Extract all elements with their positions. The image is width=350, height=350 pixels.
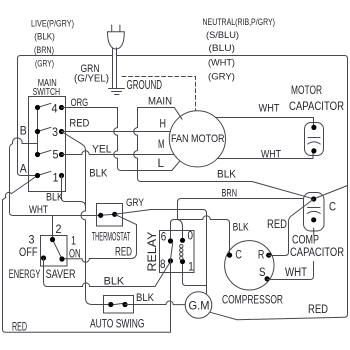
svg-text:B: B bbox=[20, 124, 27, 138]
svg-text:BLK: BLK bbox=[89, 168, 108, 180]
svg-text:3: 3 bbox=[29, 233, 35, 247]
svg-text:BLK: BLK bbox=[46, 192, 64, 204]
wire GRY from thermostat to G.M motor (drop at x206.5) bbox=[115, 210, 207, 294]
svg-text:S: S bbox=[259, 265, 266, 279]
wire ORG from switch 4 down to fan L (hops RED,YEL) bbox=[62, 108, 172, 171]
svg-text:G.M: G.M bbox=[189, 298, 210, 312]
svg-text:WHT: WHT bbox=[261, 149, 281, 161]
wire WHT fan to motor capacitor top bbox=[216, 118, 314, 126]
svg-text:RELAY: RELAY bbox=[145, 232, 159, 272]
svg-text:1: 1 bbox=[71, 234, 76, 248]
ground symbol bbox=[109, 89, 125, 95]
wire RED from switch 3 to fan H bbox=[62, 131, 171, 133]
plug cord double line to ground bbox=[113, 48, 117, 89]
svg-text:1: 1 bbox=[188, 260, 194, 274]
svg-text:RED: RED bbox=[69, 118, 89, 130]
wire from switch 3 diagonal down + drop to auto swing (hop bulge at thermostat wire) bbox=[62, 132, 109, 305]
svg-text:4: 4 bbox=[52, 102, 58, 116]
relay contact dots bbox=[168, 238, 173, 243]
svg-text:RED: RED bbox=[12, 322, 27, 334]
comp capacitor body bbox=[304, 193, 325, 232]
relay coil bbox=[180, 245, 183, 248]
motor capacitor terminal dots bbox=[311, 125, 316, 130]
main connector pentagon bottom diagonal stub bbox=[172, 161, 180, 170]
svg-text:H: H bbox=[160, 119, 167, 131]
fan motor circle bbox=[169, 111, 225, 167]
feed arc from thermostat wire to switch bus (hop over live wire) bbox=[10, 138, 99, 216]
svg-text:(WHT): (WHT) bbox=[208, 57, 235, 67]
thermostat contact dots bbox=[98, 213, 103, 218]
svg-text:3: 3 bbox=[52, 125, 58, 139]
comp capacitor terminal dots bbox=[311, 196, 316, 201]
svg-text:(BRN): (BRN) bbox=[34, 45, 54, 55]
switch blade 3 bbox=[38, 127, 52, 131]
svg-text:OFF: OFF bbox=[19, 247, 38, 259]
wire BLK junction to relay 6 bbox=[171, 220, 178, 239]
svg-text:(BLU): (BLU) bbox=[209, 43, 236, 53]
svg-text:AUTO SWING: AUTO SWING bbox=[90, 317, 145, 331]
auto swing box bbox=[104, 296, 134, 314]
svg-text:MAIN: MAIN bbox=[148, 96, 172, 108]
svg-text:GRY: GRY bbox=[126, 197, 145, 209]
auto swing contact dots bbox=[108, 302, 113, 307]
switch blade 1 bbox=[38, 171, 52, 175]
plug prongs bbox=[112, 25, 120, 32]
svg-text:GROUND: GROUND bbox=[127, 78, 163, 92]
svg-text:C: C bbox=[329, 200, 336, 214]
svg-text:(G/YEL): (G/YEL) bbox=[74, 73, 109, 84]
svg-text:ORG: ORG bbox=[71, 97, 89, 109]
switch blade 4 bbox=[38, 103, 52, 107]
wire neutral bus diagonal into comp capacitor C bbox=[315, 186, 348, 199]
wire live bus from plug to main switch row1 bbox=[18, 56, 112, 176]
svg-text:A: A bbox=[20, 162, 27, 176]
svg-text:M: M bbox=[158, 139, 165, 151]
svg-text:WHT: WHT bbox=[29, 204, 48, 216]
svg-text:(S/BLU): (S/BLU) bbox=[206, 30, 239, 40]
svg-text:(GRY): (GRY) bbox=[35, 59, 54, 69]
svg-text:NEUTRAL(RIB,P/GRY): NEUTRAL(RIB,P/GRY) bbox=[203, 17, 276, 28]
svg-text:RED: RED bbox=[308, 302, 328, 316]
svg-text:R: R bbox=[258, 247, 265, 261]
svg-text:SWITCH: SWITCH bbox=[33, 87, 61, 98]
wire energy saver 2 up to thermostat feed bbox=[52, 216, 54, 238]
main connector pentagon left edge (hops H,M wires) bbox=[134, 108, 138, 171]
svg-text:YEL: YEL bbox=[92, 144, 112, 156]
thermostat box bbox=[97, 204, 123, 227]
thermostat blade bbox=[101, 214, 115, 215]
svg-text:(BLK): (BLK) bbox=[34, 31, 55, 41]
main switch box bbox=[29, 97, 66, 192]
svg-text:5: 5 bbox=[53, 148, 59, 162]
energy saver contact dots bbox=[50, 237, 55, 242]
svg-text:L: L bbox=[158, 158, 165, 170]
wire link relay 1 to GRY drop bbox=[183, 262, 207, 286]
wire RED comp capacitor to compressor R bbox=[269, 199, 314, 256]
wire WHT compressor S to comp capacitor bottom bbox=[267, 228, 314, 280]
wire junction S-curve to relay 0 bbox=[178, 220, 183, 238]
wire BRN from relay junction to comp capacitor bbox=[178, 199, 304, 220]
wire WHT fan to motor capacitor bottom bbox=[217, 153, 313, 159]
svg-text:RED: RED bbox=[267, 219, 287, 231]
svg-text:SAVER: SAVER bbox=[46, 269, 76, 281]
compressor terminal dots bbox=[227, 253, 232, 258]
relay blade 8-6 bbox=[171, 243, 173, 259]
svg-text:BRN: BRN bbox=[222, 188, 238, 200]
svg-text:CAPACITOR: CAPACITOR bbox=[290, 245, 344, 259]
svg-text:ON: ON bbox=[69, 249, 81, 261]
wire RED bottom-left bus bbox=[3, 200, 171, 332]
svg-text:BLK: BLK bbox=[217, 169, 237, 181]
svg-text:1: 1 bbox=[53, 171, 59, 185]
svg-text:C: C bbox=[235, 247, 242, 261]
wire YEL from switch 5 to fan M (hop over row3 drop wire) bbox=[62, 151, 175, 155]
svg-text:MOTOR: MOTOR bbox=[291, 83, 322, 97]
comp capacitor plates bbox=[307, 208, 320, 214]
switch blade 5 bbox=[38, 150, 52, 154]
wire BLK from switch 1 joining drop wire bbox=[62, 176, 86, 207]
svg-text:ENERGY: ENERGY bbox=[9, 269, 41, 281]
svg-text:2: 2 bbox=[56, 222, 62, 236]
energy saver box bbox=[41, 236, 68, 267]
svg-text:WHT: WHT bbox=[285, 267, 307, 279]
dashed ground net to fan motor frame bbox=[122, 77, 196, 111]
wire BLK junction to compressor C (hop over GRY drop) bbox=[178, 216, 230, 253]
wire BLK from fan common down and right to comp capacitor bbox=[138, 171, 314, 199]
switch contact dots bbox=[35, 105, 40, 110]
svg-text:(GRY): (GRY) bbox=[208, 71, 235, 81]
svg-text:BLK: BLK bbox=[104, 275, 125, 287]
svg-text:BLK: BLK bbox=[233, 222, 250, 234]
svg-text:6: 6 bbox=[161, 229, 167, 243]
svg-text:CAPACITOR: CAPACITOR bbox=[289, 99, 344, 113]
svg-text:COMPRESSOR: COMPRESSOR bbox=[222, 293, 283, 307]
svg-text:LIVE(P/GRY): LIVE(P/GRY) bbox=[31, 19, 74, 30]
motor capacitor body bbox=[305, 123, 324, 156]
wire BLK energy saver 3 to relay 8 (hop over drop wire) bbox=[44, 258, 171, 287]
svg-text:WHT: WHT bbox=[259, 102, 280, 114]
svg-text:RED: RED bbox=[115, 247, 132, 259]
main connector pentagon top bbox=[138, 108, 183, 120]
relay box bbox=[160, 231, 195, 273]
energy saver blade 2-1 bbox=[53, 240, 63, 260]
motor capacitor plates bbox=[308, 138, 321, 145]
wire auto swing to G.M (hop over relay8 drop) bbox=[125, 301, 185, 305]
plug body bbox=[108, 32, 125, 49]
main switch left contact bus bbox=[37, 108, 39, 155]
wire neutral bus top and right, bottom red bus, left wht edge bbox=[117, 56, 348, 320]
compressor circle bbox=[225, 241, 274, 290]
auto swing blade bbox=[111, 303, 125, 305]
svg-text:0: 0 bbox=[188, 229, 194, 243]
svg-text:BLK: BLK bbox=[136, 292, 155, 304]
svg-text:THERMOSTAT: THERMOSTAT bbox=[92, 232, 131, 244]
wire relay 8 down to bottom bus bbox=[170, 261, 172, 332]
svg-text:FAN MOTOR: FAN MOTOR bbox=[171, 133, 225, 145]
wire RED thermostat bridge to energy saver 1 (hop over drop wire) bbox=[64, 214, 137, 262]
G.M motor circle bbox=[185, 292, 212, 319]
svg-text:8: 8 bbox=[160, 257, 166, 271]
wire WHT diagonal from switch 1 left to left edge (hop over feed wire) bbox=[3, 176, 38, 200]
